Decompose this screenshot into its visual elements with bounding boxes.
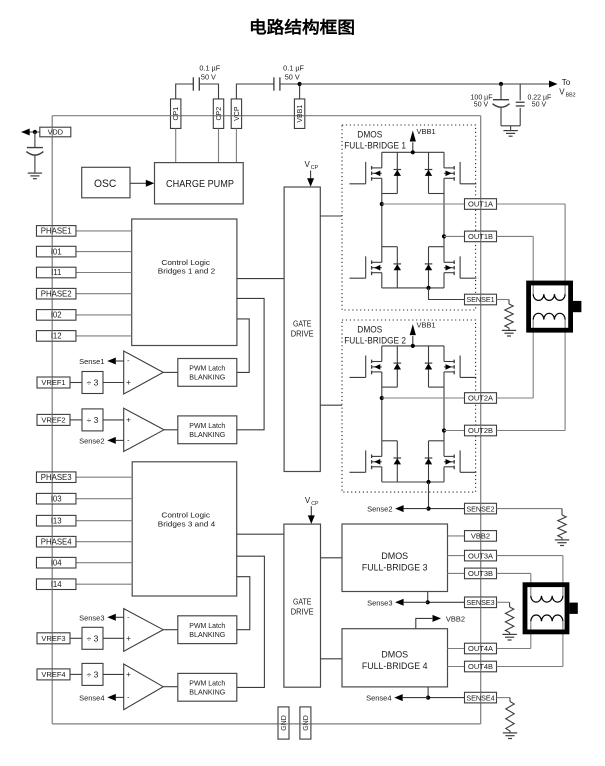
svg-text:VREF1: VREF1 (41, 378, 65, 387)
svg-text:FULL-BRIDGE 2: FULL-BRIDGE 2 (344, 336, 406, 347)
svg-text:I01: I01 (51, 247, 62, 256)
svg-text:DMOS: DMOS (381, 649, 408, 660)
svg-text:VBB2: VBB2 (471, 532, 490, 541)
svg-text:PWM Latch: PWM Latch (189, 679, 225, 688)
svg-text:GND: GND (303, 715, 310, 731)
svg-text:I12: I12 (51, 332, 62, 341)
svg-text:GATE: GATE (293, 597, 312, 606)
svg-text:I14: I14 (51, 580, 63, 589)
svg-text:OUT4A: OUT4A (468, 644, 493, 653)
svg-text:Sense4: Sense4 (366, 694, 391, 703)
svg-text:Bridges 3 and 4: Bridges 3 and 4 (158, 519, 215, 528)
svg-text:Sense4: Sense4 (79, 694, 104, 703)
svg-text:VBB1: VBB1 (417, 127, 436, 136)
svg-text:VREF3: VREF3 (41, 634, 65, 643)
svg-text:I02: I02 (51, 311, 62, 320)
svg-text:CP: CP (311, 165, 319, 171)
svg-text:÷ 3: ÷ 3 (87, 633, 99, 643)
svg-text:SENSE2: SENSE2 (466, 504, 494, 513)
svg-text:Control Logic: Control Logic (161, 511, 210, 520)
svg-text:BLANKING: BLANKING (189, 430, 225, 439)
svg-text:+: + (126, 416, 131, 425)
svg-text:VDD: VDD (48, 128, 63, 137)
svg-text:CP: CP (311, 501, 319, 507)
svg-text:V: V (305, 160, 311, 169)
svg-text:BLANKING: BLANKING (189, 630, 225, 639)
svg-text:OUT3B: OUT3B (468, 569, 493, 578)
svg-text:DMOS: DMOS (357, 324, 382, 335)
svg-text:OUT2B: OUT2B (468, 426, 493, 435)
svg-text:CP1: CP1 (173, 107, 180, 121)
svg-text:VBB2: VBB2 (446, 614, 465, 623)
svg-text:CP2: CP2 (216, 107, 223, 121)
svg-text:OUT1B: OUT1B (468, 232, 493, 241)
svg-text:GATE: GATE (293, 320, 312, 329)
svg-text:SENSE3: SENSE3 (466, 598, 494, 607)
svg-text:FULL-BRIDGE 3: FULL-BRIDGE 3 (362, 563, 428, 574)
svg-text:+: + (126, 378, 131, 387)
svg-text:DRIVE: DRIVE (291, 330, 314, 339)
svg-text:÷ 3: ÷ 3 (87, 415, 99, 425)
svg-text:VREF2: VREF2 (41, 416, 65, 425)
svg-text:0.1 µF: 0.1 µF (199, 64, 220, 73)
svg-text:SENSE1: SENSE1 (466, 295, 494, 304)
svg-text:50 V: 50 V (474, 101, 489, 108)
svg-text:BB2: BB2 (566, 93, 576, 99)
svg-text:100 µF: 100 µF (471, 94, 493, 101)
svg-text:Sense1: Sense1 (79, 357, 104, 366)
svg-text:V: V (305, 496, 311, 505)
svg-text:FULL-BRIDGE 4: FULL-BRIDGE 4 (362, 661, 428, 672)
svg-text:FULL-BRIDGE 1: FULL-BRIDGE 1 (344, 141, 406, 152)
svg-text:VCP: VCP (234, 106, 241, 121)
svg-text:电路结构框图: 电路结构框图 (249, 17, 355, 37)
svg-text:OUT4B: OUT4B (468, 662, 493, 671)
svg-text:OUT1A: OUT1A (468, 200, 493, 209)
svg-text:I03: I03 (51, 494, 62, 503)
svg-text:VREF4: VREF4 (41, 670, 65, 679)
svg-text:PWM Latch: PWM Latch (189, 421, 225, 430)
svg-text:DMOS: DMOS (381, 551, 408, 562)
svg-text:Sense3: Sense3 (79, 614, 104, 623)
svg-text:I04: I04 (51, 558, 63, 567)
svg-text:Sense3: Sense3 (367, 598, 392, 607)
svg-text:OSC: OSC (94, 178, 116, 190)
svg-text:÷ 3: ÷ 3 (87, 378, 99, 388)
svg-text:÷ 3: ÷ 3 (87, 669, 99, 679)
svg-text:0.22 µF: 0.22 µF (527, 94, 551, 101)
svg-text:OUT2A: OUT2A (468, 394, 493, 403)
svg-text:I13: I13 (51, 516, 62, 525)
svg-text:+: + (126, 670, 131, 679)
svg-text:PWM Latch: PWM Latch (189, 364, 225, 373)
svg-text:DRIVE: DRIVE (291, 607, 314, 616)
svg-text:50 V: 50 V (532, 101, 547, 108)
svg-text:DMOS: DMOS (357, 129, 382, 140)
svg-text:VBB1: VBB1 (297, 105, 304, 123)
svg-text:0.1 µF: 0.1 µF (283, 64, 304, 73)
svg-text:Bridges 1 and 2: Bridges 1 and 2 (158, 266, 215, 275)
svg-text:PHASE1: PHASE1 (41, 227, 72, 236)
svg-text:PWM Latch: PWM Latch (189, 621, 225, 630)
svg-text:OUT3A: OUT3A (468, 551, 493, 560)
svg-text:GND: GND (281, 715, 288, 731)
svg-text:Sense2: Sense2 (367, 505, 392, 514)
svg-text:VBB1: VBB1 (417, 321, 436, 330)
svg-text:50 V: 50 V (201, 73, 216, 82)
svg-text:BLANKING: BLANKING (189, 373, 225, 382)
svg-text:BLANKING: BLANKING (189, 688, 225, 697)
svg-text:CHARGE PUMP: CHARGE PUMP (166, 179, 234, 190)
svg-text:V: V (559, 88, 565, 97)
svg-text:Sense2: Sense2 (79, 437, 104, 446)
svg-text:PHASE4: PHASE4 (41, 537, 72, 546)
svg-text:SENSE4: SENSE4 (466, 693, 494, 702)
svg-text:50 V: 50 V (285, 73, 300, 82)
svg-text:+: + (126, 634, 131, 643)
svg-text:PHASE3: PHASE3 (41, 473, 72, 482)
svg-text:To: To (562, 78, 571, 87)
svg-text:I11: I11 (51, 268, 61, 277)
svg-text:PHASE2: PHASE2 (41, 289, 72, 298)
